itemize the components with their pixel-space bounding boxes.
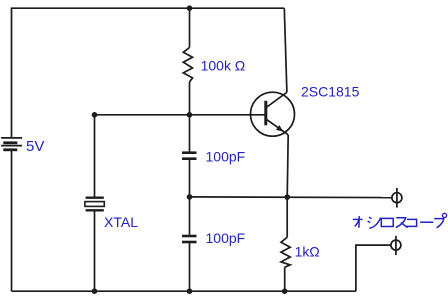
glyph ro bbox=[381, 218, 393, 226]
svg-text:100pF: 100pF bbox=[206, 230, 246, 246]
crystal XTAL bbox=[85, 198, 104, 211]
svg-text:Ω: Ω bbox=[235, 58, 245, 74]
battery BT1 5V bbox=[1, 138, 22, 150]
svg-text:5V: 5V bbox=[26, 138, 44, 155]
wire xtal top lead bbox=[94, 115, 96, 197]
terminal J2 bbox=[391, 236, 401, 255]
wire C1 bottom lead bbox=[189, 160, 191, 197]
resistor R2 1k bbox=[281, 237, 290, 267]
wire emitter drop bbox=[287, 135, 288, 197]
wire left rail lower bbox=[11, 150, 13, 291]
wire collector drop bbox=[284, 8, 287, 92]
svg-text:100pF: 100pF bbox=[206, 149, 246, 165]
resistor R1 100k bbox=[183, 48, 192, 83]
node bottom xtal junction bbox=[92, 288, 98, 294]
node base-r1 junction bbox=[187, 112, 193, 118]
label oscilloscope katakana bbox=[353, 213, 447, 228]
wire C1 top lead bbox=[189, 115, 191, 152]
wire 1k top lead bbox=[286, 197, 288, 237]
node bottom r2 junction bbox=[282, 288, 288, 294]
node top junction bbox=[187, 5, 193, 11]
svg-text:100k: 100k bbox=[201, 58, 232, 74]
wire terminal J2 link bbox=[356, 245, 391, 291]
glyph pu bbox=[434, 213, 446, 228]
wire C2 top lead bbox=[189, 197, 191, 235]
wire top rail bbox=[12, 8, 285, 138]
wire xtal bottom lead bbox=[94, 212, 96, 292]
node base-xtal junction bbox=[92, 112, 98, 118]
node emitter-r2 junction bbox=[284, 194, 290, 200]
wire 100k bottom lead bbox=[189, 82, 191, 115]
transistor Q1 2SC1815 bbox=[251, 92, 295, 136]
glyph su bbox=[396, 218, 408, 228]
terminal J1 bbox=[392, 188, 402, 208]
wire base rail bbox=[95, 114, 265, 116]
node bottom c2 junction bbox=[187, 288, 193, 294]
wire bottom rail bbox=[12, 290, 356, 292]
node emitter-c1 junction bbox=[187, 194, 193, 200]
wire emitter rail to terminal bbox=[190, 196, 392, 199]
capacitor C1 100pF bbox=[182, 153, 197, 159]
svg-text:1k: 1k bbox=[295, 244, 311, 260]
glyph shi bbox=[368, 217, 381, 228]
wire 1k bottom lead bbox=[284, 267, 286, 291]
wire 100k top lead bbox=[189, 8, 191, 47]
glyph o bbox=[353, 216, 363, 228]
svg-text:2SC1815: 2SC1815 bbox=[301, 83, 360, 99]
capacitor C2 100pF bbox=[182, 236, 197, 242]
glyph chouon bbox=[420, 221, 433, 223]
glyph ko bbox=[406, 219, 416, 226]
svg-text:XTAL: XTAL bbox=[104, 214, 138, 230]
wire C2 bottom lead bbox=[189, 243, 191, 291]
svg-text:Ω: Ω bbox=[309, 244, 319, 260]
